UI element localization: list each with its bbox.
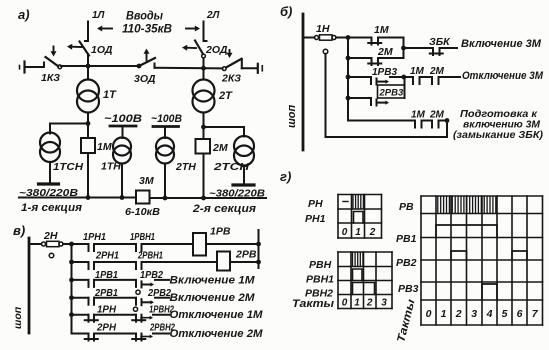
wire row 2РВ1 <box>72 297 89 299</box>
svg-text:2: 2 <box>366 298 373 309</box>
arrow to 1Л <box>102 28 112 30</box>
LV busbar of 2ТСН <box>233 183 254 186</box>
node after 1Н <box>346 35 351 40</box>
contact ЗБК <box>432 48 434 55</box>
node: junction 2Л/bus <box>201 66 206 71</box>
contact 2РН1 <box>88 262 90 269</box>
svg-text:а): а) <box>18 7 30 22</box>
svg-text:б): б) <box>280 4 292 19</box>
time contact 1РВ3 <box>370 77 372 84</box>
wire row 1РН1 <box>72 243 89 245</box>
svg-text:2М: 2М <box>429 110 445 121</box>
transformer 2ТСН <box>234 136 254 156</box>
svg-text:2РВ2: 2РВ2 <box>147 288 171 299</box>
wire 1Т secondary <box>87 113 89 139</box>
node 2М/bus <box>201 196 206 201</box>
wire row2 <box>348 76 371 78</box>
svg-text:1ТСН: 1ТСН <box>53 161 83 173</box>
svg-text:3М: 3М <box>139 175 154 187</box>
node row2/2РВ3 <box>401 75 406 80</box>
wire row2 to relay 2РВ <box>148 261 217 263</box>
svg-text:1-я секция: 1-я секция <box>21 202 83 214</box>
node 2РВ/right bus <box>256 260 261 265</box>
svg-text:1ТН: 1ТН <box>101 161 121 173</box>
terminal circle <box>49 253 54 258</box>
wire top branch <box>348 37 372 39</box>
relay coil 2РВ <box>217 252 230 271</box>
svg-text:110-35кВ: 110-35кВ <box>122 24 172 36</box>
node 1ТН/bus <box>120 195 125 200</box>
contact 1М row2 <box>412 77 414 84</box>
1КЗ blade <box>46 57 59 66</box>
pulse РН1 <box>354 212 364 224</box>
svg-text:Отключение 3М: Отключение 3М <box>462 70 544 82</box>
node: junction 1Л/bus <box>86 64 91 69</box>
wire 2ТН to bus <box>164 164 166 199</box>
wire 1ТН to bus <box>121 164 123 198</box>
return wire <box>325 54 327 137</box>
pulse РВН2 <box>353 283 375 295</box>
wire 2РВ3 up to row2 <box>404 77 406 98</box>
wire 1ТСН to LV bar <box>49 162 51 183</box>
svg-text:2М: 2М <box>212 142 228 154</box>
transformer 1ТСН <box>40 133 60 153</box>
node row2 <box>346 75 351 80</box>
contact 1М row4 <box>414 121 416 128</box>
wire bottom branch right <box>378 57 404 59</box>
wire row 1РВ1 <box>72 279 89 281</box>
svg-text:Включение 3М: Включение 3М <box>461 38 542 50</box>
svg-text:~380/220В: ~380/220В <box>209 188 265 200</box>
svg-text:2КЗ: 2КЗ <box>221 73 241 85</box>
node 1РВ/right bus <box>256 242 261 247</box>
contact 2РН <box>88 334 90 341</box>
relay coil 1РВ <box>193 233 206 256</box>
svg-text:2ОД: 2ОД <box>205 44 228 56</box>
svg-text:6: 6 <box>517 308 523 320</box>
svg-text:РВ1: РВ1 <box>396 233 417 245</box>
terminal bar 2ТН <box>153 125 179 128</box>
wire 1ОД to bus <box>87 55 89 66</box>
svg-text:0: 0 <box>342 298 348 309</box>
time contact 2РВ3 <box>370 98 372 105</box>
1КЗ fixed contact tick <box>43 63 45 68</box>
svg-text:1ОД: 1ОД <box>91 44 113 56</box>
node 1М/bus <box>86 195 91 200</box>
wire row 2РН <box>72 333 89 335</box>
HV bus right segment <box>155 67 223 70</box>
svg-text:РВ2: РВ2 <box>396 257 417 269</box>
wire row1 from bus <box>29 243 42 245</box>
terminal bar 1ТН <box>110 125 136 128</box>
wire 1КЗ <box>25 66 45 68</box>
wire row mid 2РН <box>94 333 136 335</box>
svg-text:1РВН1: 1РВН1 <box>130 232 155 243</box>
pulse РВН1 <box>353 269 363 281</box>
grid table2 <box>337 252 339 309</box>
svg-text:2: 2 <box>369 227 376 238</box>
svg-text:Отключение 1М: Отключение 1М <box>170 309 264 321</box>
arrow of 1ОД <box>72 46 82 48</box>
short-circuiter 1КЗ ground terminal <box>19 66 21 69</box>
svg-text:1Н: 1Н <box>316 23 330 35</box>
hatch РВ tacts1-4 <box>437 197 439 213</box>
svg-text:1М: 1М <box>411 110 426 121</box>
svg-text:1КЗ: 1КЗ <box>41 72 60 84</box>
node: branch junction left <box>86 121 91 126</box>
svg-text:РВН: РВН <box>309 259 332 271</box>
РН baseline dash <box>343 201 348 203</box>
wire row4 <box>348 120 415 122</box>
wire row2 mid <box>390 76 413 78</box>
wire row4 mid <box>422 120 433 122</box>
svg-text:2ТН: 2ТН <box>175 161 196 173</box>
wire 2М to bus <box>203 154 205 199</box>
node row4 end <box>445 118 450 123</box>
grid table1 <box>337 195 339 239</box>
contact 1РВН1 <box>135 244 137 251</box>
wire to ЗБК <box>404 47 434 49</box>
wire row 1РН <box>72 314 89 316</box>
contact 2М row4 <box>431 121 433 128</box>
svg-text:4: 4 <box>486 308 493 320</box>
svg-text:в): в) <box>13 223 25 238</box>
contact 2РВН2 <box>135 334 137 341</box>
svg-text:шоп: шоп <box>12 306 24 329</box>
wire row mid 1РН1 <box>94 243 136 245</box>
wire 1ТН top <box>122 126 124 138</box>
svg-text:1Л: 1Л <box>92 10 106 21</box>
wire 2ТН top <box>164 127 166 139</box>
fuse 1Н <box>315 36 319 40</box>
svg-text:3: 3 <box>381 298 387 309</box>
svg-text:РН1: РН1 <box>305 213 326 225</box>
right return vertical <box>258 230 260 268</box>
wire row4 end <box>439 120 448 122</box>
node: branch junction right <box>201 125 206 130</box>
voltage transformer 1ТН <box>113 138 131 156</box>
3ОД blade <box>140 58 155 66</box>
svg-text:5: 5 <box>502 308 508 320</box>
contact 2РВ1 <box>88 298 90 305</box>
wire row mid 2РВ1 <box>94 297 136 299</box>
wire row 2РН1 <box>72 261 89 263</box>
contact 1РВ2 <box>135 280 137 287</box>
svg-text:2РВ3: 2РВ3 <box>379 88 404 99</box>
wire after ЗБК <box>440 47 458 49</box>
pulse РВ2 tact6 <box>512 251 527 260</box>
arrow of 2КЗ <box>229 50 231 53</box>
svg-text:1М: 1М <box>374 24 389 36</box>
svg-text:1РВ2: 1РВ2 <box>140 270 163 281</box>
svg-text:ЗБК: ЗБК <box>429 36 451 48</box>
fuse 2Н <box>42 242 46 246</box>
svg-text:Вводы: Вводы <box>126 11 163 23</box>
svg-text:3ОД: 3ОД <box>134 73 156 85</box>
wire top branch right <box>378 37 404 39</box>
wire after 1РВН1 <box>142 243 149 245</box>
disconnector 2ОД blade <box>195 41 203 55</box>
node feeder <box>69 295 74 300</box>
arrow of 1КЗ <box>53 47 55 52</box>
wire 2РВ to right bus <box>230 261 259 263</box>
wire 2Т secondary <box>203 113 205 140</box>
svg-text:РВ3: РВ3 <box>398 283 419 295</box>
contact 1РН1 <box>88 244 90 251</box>
wire after 2РВН1 <box>142 261 149 263</box>
svg-text:Такты: Такты <box>292 298 335 310</box>
disconnector 1ОД blade <box>80 42 90 56</box>
relay box 2РВ3 <box>378 85 405 98</box>
wire 2КЗ <box>242 67 257 69</box>
bus ШОП vertical 2 <box>28 238 31 333</box>
svg-text:2РН1: 2РН1 <box>95 251 119 262</box>
svg-text:6-10кВ: 6-10кВ <box>125 206 160 218</box>
contact 2РВ2 <box>135 298 137 305</box>
svg-text:РН: РН <box>308 198 323 210</box>
pulse РВ3 tact4 <box>482 284 497 300</box>
contact 2М row2 <box>431 77 433 84</box>
wire 1Т primary <box>87 66 89 80</box>
wire row1 from bus <box>303 37 315 39</box>
svg-text:0: 0 <box>342 227 348 238</box>
contact 1РВ1 <box>88 280 90 287</box>
1КЗ hinge <box>58 65 62 69</box>
wire branch to 2ТСН <box>204 126 245 128</box>
feeder vertical section б <box>347 58 349 121</box>
hinge of 2ОД <box>202 54 206 58</box>
svg-text:2РВН1: 2РВН1 <box>137 251 163 262</box>
svg-text:2: 2 <box>455 308 462 320</box>
svg-text:(замыкание ЗБК): (замыкание ЗБК) <box>453 129 544 141</box>
svg-text:3: 3 <box>471 308 477 320</box>
wire branch to 1ТСН <box>50 123 88 125</box>
node feeder <box>69 278 74 283</box>
svg-text:1: 1 <box>354 298 360 309</box>
arrow of 2ОД <box>187 47 196 49</box>
node feeder top <box>69 242 74 247</box>
svg-text:2РН: 2РН <box>96 323 117 334</box>
2КЗ blade <box>226 59 242 68</box>
svg-text:0: 0 <box>426 308 432 320</box>
node output of block <box>401 46 406 51</box>
contact 1М (NO) <box>371 38 373 45</box>
wire row2 end <box>439 76 461 78</box>
grid table3 <box>420 196 422 325</box>
svg-text:~100В: ~100В <box>104 113 142 125</box>
line 2Л (incoming line) <box>203 22 205 42</box>
signal РВ1 <box>436 225 497 238</box>
feeder vertical <box>71 244 73 334</box>
svg-text:1М: 1М <box>410 66 425 77</box>
bus-tie switch 3М box <box>136 191 150 204</box>
wire row3 <box>348 97 371 99</box>
svg-text:г): г) <box>280 169 291 184</box>
svg-text:1: 1 <box>355 227 361 238</box>
LV busbar of 1ТСН <box>39 182 59 185</box>
pulse РВ2 tact2 <box>451 251 467 260</box>
bus 2-я секция <box>150 197 267 199</box>
node feeder <box>69 260 74 265</box>
svg-text:2М: 2М <box>429 66 445 77</box>
2КЗ fixed contact tick <box>241 59 243 68</box>
node row3 <box>346 96 351 101</box>
wire to relay 1РВ <box>148 243 193 245</box>
hatch РВН tact1 <box>352 253 354 266</box>
arrow to 2Л <box>186 28 195 30</box>
svg-text:Включение 2М: Включение 2М <box>170 292 256 304</box>
wire 2Т primary <box>203 68 205 79</box>
svg-text:1: 1 <box>441 308 447 320</box>
parallel block right vertical <box>403 38 405 59</box>
wire 2ОД to bus <box>203 58 205 68</box>
svg-text:1РВ: 1РВ <box>210 226 231 238</box>
node feeder <box>69 312 74 317</box>
svg-text:~100В: ~100В <box>151 113 182 125</box>
svg-text:РВН1: РВН1 <box>306 274 334 286</box>
contact 2М (NO) <box>371 58 373 65</box>
transformer 1Т <box>77 80 99 102</box>
node 2ТН/bus <box>163 196 168 201</box>
svg-text:2Н: 2Н <box>43 230 58 242</box>
svg-text:1Т: 1Т <box>103 89 117 101</box>
svg-text:1М: 1М <box>97 141 112 153</box>
svg-text:2Т: 2Т <box>218 90 233 102</box>
switch 2М box <box>196 139 211 154</box>
svg-text:2-я секция: 2-я секция <box>192 203 257 215</box>
wire 1РВ to right bus <box>206 243 259 245</box>
transformer 2Т <box>193 80 215 102</box>
wire bottom branch <box>348 57 372 59</box>
arrow of 3ОД <box>146 54 148 61</box>
bus ШОП vertical <box>302 14 305 150</box>
2КЗ terminal <box>257 64 259 73</box>
HV bus left segment <box>61 65 139 67</box>
contact 2РВН1 <box>135 262 137 269</box>
svg-text:Включение 1М: Включение 1М <box>170 274 256 286</box>
svg-text:шоп: шоп <box>286 105 298 129</box>
switch 1М box <box>81 138 95 153</box>
bus 1-я секция <box>19 197 136 199</box>
contact 1РВН2 <box>135 315 137 322</box>
wire row mid 1РН <box>94 314 136 316</box>
wire 1М to bus <box>87 153 89 198</box>
svg-text:1РН1: 1РН1 <box>83 232 106 243</box>
line 1Л (incoming line) <box>87 22 89 42</box>
node bottom-left of block <box>346 56 351 61</box>
wire row mid 1РВ1 <box>94 279 136 281</box>
svg-text:РВ: РВ <box>399 201 414 213</box>
contact 1РН <box>88 315 90 322</box>
3ОД fixed tick <box>154 64 156 68</box>
svg-text:2Л: 2Л <box>206 10 221 21</box>
parallel block left vertical <box>347 38 349 59</box>
voltage transformer 2ТН <box>156 138 174 156</box>
wire row mid 2РН1 <box>94 261 136 263</box>
terminal circle return wire <box>323 49 328 54</box>
sectionalizing disconnector 3ОД hinge <box>137 64 142 69</box>
svg-text:2РВ: 2РВ <box>235 249 257 261</box>
wire 2ТСН to LV bar <box>243 166 245 184</box>
svg-text:2М: 2М <box>377 46 393 58</box>
short-circuiter 2КЗ hinge <box>222 67 226 71</box>
svg-text:Отключение 2М: Отключение 2М <box>170 328 264 340</box>
hatch РН tact1 <box>352 196 354 209</box>
wire row2 mid2 <box>420 76 433 78</box>
